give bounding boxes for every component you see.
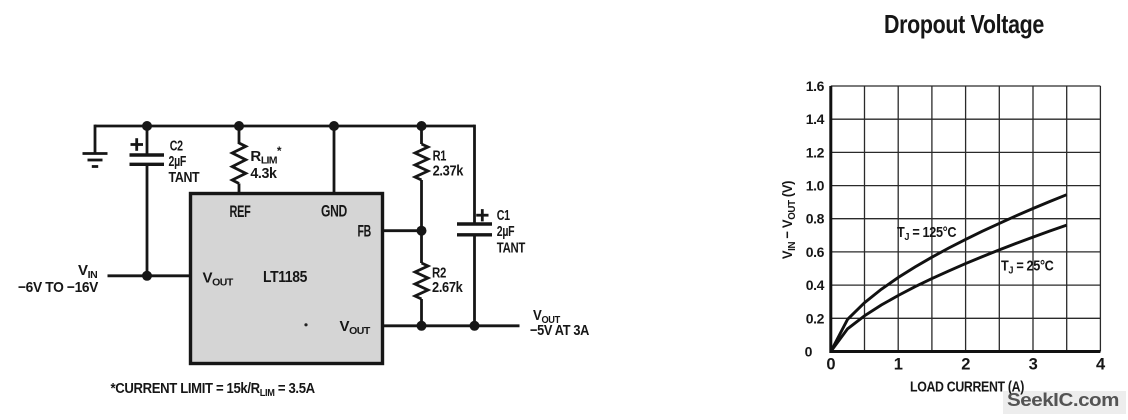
wire: R1 to R2 segment (420, 180, 423, 263)
svg-text:4.3k: 4.3k (250, 165, 277, 182)
wire: GND pin lead (333, 125, 336, 194)
watermark background (1003, 391, 1126, 414)
svg-text:*CURRENT LIMIT = 15k/RLIM = 3.: *CURRENT LIMIT = 15k/RLIM = 3.5A (111, 379, 315, 399)
svg-text:0.4: 0.4 (806, 277, 825, 293)
C2 plus sign (131, 138, 144, 151)
svg-text:TANT: TANT (497, 241, 526, 257)
svg-text:TJ = 125°C: TJ = 125°C (897, 224, 957, 243)
wire: top rail (95, 125, 475, 128)
svg-text:1.4: 1.4 (806, 111, 825, 127)
R1 value label (433, 148, 464, 180)
svg-text:4: 4 (1096, 356, 1106, 374)
svg-text:RLIM*: RLIM* (250, 144, 281, 167)
curve TJ=125C (831, 195, 1067, 352)
C1 value label (497, 208, 526, 257)
svg-text:2: 2 (961, 356, 970, 374)
svg-text:SeekIC.com: SeekIC.com (1007, 390, 1119, 410)
svg-text:3: 3 (1029, 356, 1038, 374)
wire: C2 top lead (146, 125, 149, 154)
node: VIN / C2 junction (142, 271, 152, 281)
wire: C2 bottom lead (146, 166, 149, 276)
node: top rail / C2 junction (142, 121, 152, 131)
resistor R2 (415, 263, 428, 299)
wire: FB pin to divider node (382, 229, 422, 232)
wire: R1 top lead (420, 125, 423, 144)
svg-text:−6V TO −16V: −6V TO −16V (18, 279, 98, 296)
svg-text:GND: GND (321, 202, 347, 221)
svg-text:2µF: 2µF (169, 154, 187, 170)
wire: C1 bottom lead (473, 236, 476, 325)
svg-text:1: 1 (894, 356, 903, 374)
svg-text:REF: REF (230, 202, 251, 221)
wire: RLIM top lead (238, 125, 241, 144)
R2 value label (432, 264, 463, 296)
curve label TJ=25C (1001, 258, 1054, 277)
IC U1 regulator LT1185 body (191, 194, 383, 364)
chart axes (831, 86, 1101, 352)
wire: right rail drop to C1 (473, 125, 476, 223)
curve TJ=25C (831, 225, 1067, 351)
svg-text:C2: C2 (170, 139, 183, 155)
wire: ground stub (94, 125, 97, 153)
wire: R2 bottom lead (420, 299, 423, 326)
current limit note (111, 379, 315, 399)
curve label TJ=125C (897, 224, 957, 243)
node label VOUT output (533, 306, 560, 326)
capacitor C2 (130, 155, 165, 164)
node: top rail / RLIM junction (234, 121, 244, 131)
chart plot frame and grid (831, 86, 1101, 352)
svg-text:2.67k: 2.67k (432, 279, 463, 296)
RLIM value label (250, 144, 281, 182)
svg-text:2µF: 2µF (497, 224, 515, 240)
capacitor C1 (457, 224, 492, 235)
wire: VIN input wire (108, 274, 192, 277)
svg-text:TANT: TANT (169, 170, 200, 186)
svg-text:TJ = 25°C: TJ = 25°C (1001, 258, 1054, 277)
wire: bottom output wire (382, 324, 520, 327)
C2 value label (169, 139, 200, 186)
node: top rail / GND junction (329, 121, 339, 131)
svg-text:1.2: 1.2 (806, 144, 825, 160)
node: output / C1 junction (470, 321, 480, 331)
svg-text:0.6: 0.6 (806, 244, 825, 260)
ground (83, 154, 108, 167)
svg-text:−5V AT 3A: −5V AT 3A (530, 322, 589, 339)
svg-text:0.2: 0.2 (806, 310, 825, 326)
svg-text:Dropout Voltage: Dropout Voltage (884, 9, 1044, 39)
svg-text:LT1185: LT1185 (263, 269, 308, 286)
node: FB / divider junction (417, 226, 427, 236)
svg-text:0: 0 (826, 356, 835, 374)
svg-text:FB: FB (358, 222, 372, 241)
node: top rail / R1 junction (417, 121, 427, 131)
resistor RLIM (232, 143, 246, 184)
node: output / divider junction (417, 321, 427, 331)
svg-text:0.8: 0.8 (806, 211, 825, 227)
svg-text:2.37k: 2.37k (433, 163, 464, 180)
svg-text:1.0: 1.0 (806, 178, 825, 194)
wire: RLIM bottom lead (to REF pin) (238, 184, 241, 194)
svg-text:0: 0 (805, 344, 813, 360)
svg-text:1.6: 1.6 (806, 78, 825, 94)
svg-text:C1: C1 (497, 208, 510, 224)
resistor R1 (415, 144, 428, 180)
svg-text:VIN − VOUT (V): VIN − VOUT (V) (780, 181, 799, 259)
C1 plus sign (476, 209, 488, 221)
